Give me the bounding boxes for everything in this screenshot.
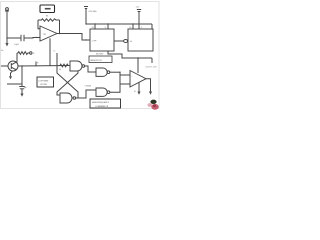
- counter U3: [128, 29, 153, 51]
- nand gate G2: [96, 68, 110, 76]
- wire left tie: [7, 83, 22, 85]
- border frame: [1, 2, 160, 109]
- wire CLK output stub: [151, 58, 153, 63]
- svg-text:Vin: Vin: [1, 50, 4, 52]
- wire cross coupling 1: [57, 66, 78, 98]
- node bus junctions: [85, 23, 139, 24]
- wire to comparator plus: [120, 72, 130, 84]
- node G2 output junction: [119, 72, 120, 73]
- node right bus junction: [137, 57, 138, 58]
- wire G3 output: [76, 90, 96, 98]
- nand gate G4: [96, 88, 110, 96]
- svg-text:MC7490: MC7490: [96, 54, 103, 56]
- svg-text:¼74S00: ¼74S00: [84, 85, 91, 88]
- wire top bus: [86, 23, 152, 25]
- svg-text:R1: R1: [46, 16, 48, 18]
- svg-text:FILTER: FILTER: [41, 84, 48, 86]
- capacitor C2: [19, 87, 25, 89]
- svg-text:COMPARATOR: COMPARATOR: [95, 105, 109, 108]
- resistor R2: [17, 52, 30, 55]
- counter U2: [90, 29, 114, 51]
- crystal Y1: [84, 7, 88, 9]
- op-amp U1: [40, 26, 57, 41]
- output terminal: [30, 52, 32, 54]
- node A junction: [6, 37, 7, 38]
- nand gate G3: [60, 93, 76, 103]
- wire U3 pin stubs: [133, 24, 152, 29]
- svg-text:÷2 FF: ÷2 FF: [92, 40, 98, 43]
- capacitor C1: [21, 35, 24, 41]
- logo watermark: [148, 100, 159, 110]
- clock bubble U3: [124, 40, 128, 43]
- svg-text:1k: 1k: [59, 69, 61, 71]
- svg-text:LOW PASS: LOW PASS: [39, 79, 49, 82]
- wire collector up: [16, 53, 17, 62]
- oscillator label box: [40, 5, 55, 13]
- wire stub up: [35, 62, 37, 66]
- svg-text:R₂: R₂: [134, 91, 136, 93]
- wire to comparator minus: [110, 84, 130, 92]
- wire U2 to U3: [114, 40, 124, 42]
- nand gate G1: [70, 61, 85, 71]
- svg-text:0.01 MHz: 0.01 MHz: [89, 11, 97, 13]
- wire lower signal line: [18, 65, 70, 68]
- resistor R4: [59, 64, 70, 67]
- wire comparator output: [146, 79, 151, 92]
- wire to C1: [7, 37, 21, 39]
- svg-text:Vₒ: Vₒ: [33, 53, 35, 55]
- svg-text:MEMORY B1: MEMORY B1: [91, 60, 102, 62]
- phase label box: [37, 77, 54, 87]
- svg-text:CLK TTL OUT: CLK TTL OUT: [146, 67, 158, 69]
- wire U2 pin stubs: [95, 24, 108, 29]
- node stub junction: [35, 65, 36, 66]
- power +5V: [136, 7, 142, 25]
- wire C2 drop: [21, 66, 23, 86]
- node output junction: [85, 39, 86, 40]
- svg-text:HIGH FREQUENCY: HIGH FREQUENCY: [92, 102, 110, 104]
- wire comparator bottom: [138, 82, 140, 91]
- wire G1 output to G2: [85, 66, 96, 72]
- ground comparator bottom: [137, 92, 140, 95]
- input terminal J1: [5, 8, 9, 11]
- node lower bus junction: [49, 65, 50, 66]
- ground comparator output: [149, 92, 152, 95]
- wire op-amp output: [57, 34, 90, 41]
- comparator U4: [130, 71, 146, 88]
- svg-text:741: 741: [43, 34, 46, 36]
- wire input rail: [6, 11, 8, 43]
- memory label box: [89, 56, 112, 63]
- ground C2: [20, 94, 23, 97]
- wire crystal to bus: [85, 9, 87, 25]
- ground Q1 emitter: [9, 76, 12, 79]
- svg-text:V₂: V₂: [54, 51, 56, 53]
- wire C1 to op-amp: [24, 37, 40, 40]
- wire latch stub up: [56, 53, 58, 66]
- node feedback junction: [59, 33, 60, 34]
- comparator label box: [90, 99, 121, 108]
- wire feedback to output: [59, 20, 61, 34]
- wire U2 bottom to right bus: [108, 51, 152, 58]
- wire comparator top feed: [137, 58, 139, 73]
- ground: [5, 43, 8, 47]
- wire op-amp to lower bus: [49, 38, 51, 65]
- wire base: [1, 65, 8, 67]
- svg-text:−: −: [131, 84, 132, 86]
- resistor R1 feedback: [38, 19, 60, 21]
- wire G2 output: [110, 71, 120, 73]
- wire emitter to ground: [11, 71, 13, 76]
- wire C2 to ground: [21, 89, 23, 94]
- transistor Q1: [8, 61, 18, 71]
- wire inverting input: [38, 20, 40, 29]
- node C2 tap: [21, 65, 22, 66]
- node latch stub: [56, 65, 57, 66]
- svg-text:.01µF: .01µF: [14, 44, 20, 46]
- wire cross coupling 2: [57, 71, 78, 95]
